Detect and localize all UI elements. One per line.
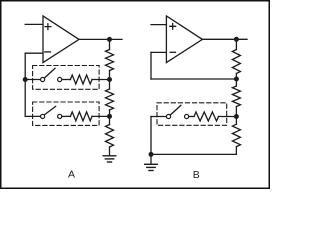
wire feedback rail A: [24, 53, 26, 116]
wire switch rail B: [150, 117, 152, 155]
wire R9 to chain node: [219, 116, 237, 118]
dashed box row1: [33, 66, 100, 90]
wire U2 inverting input: [151, 51, 166, 53]
node rail row1: [23, 77, 28, 82]
ground A: [103, 156, 116, 162]
wire U2 noninverting input: [151, 24, 166, 26]
wire R4 to chain node: [92, 79, 110, 81]
node chain row1: [107, 77, 112, 82]
node ground B: [149, 152, 154, 157]
wire U2 feedback across: [151, 78, 236, 80]
wire node to R3: [109, 116, 111, 124]
wire R6 to node: [235, 74, 237, 80]
wire U2 feedback down: [150, 52, 152, 79]
node chain row B: [234, 114, 239, 119]
switch S2: [41, 106, 62, 118]
op-amp U1: [43, 16, 79, 63]
wire rail to switch S3: [151, 116, 166, 118]
wire S3 to R9: [189, 116, 194, 118]
resistor R6: [232, 50, 240, 74]
switch S1: [41, 68, 62, 81]
wire R1 to node: [109, 71, 111, 80]
wire R7 to node: [235, 107, 237, 117]
wire R2 to node: [109, 110, 111, 116]
wire U2 output: [202, 38, 247, 40]
border frame: [1, 1, 270, 189]
wire R3 to ground: [109, 147, 111, 155]
wire chain top segment: [109, 39, 111, 49]
wire node to R2: [109, 80, 111, 90]
resistor R2: [106, 89, 114, 110]
dashed box row2: [33, 102, 100, 125]
node output A: [107, 37, 112, 42]
wire rail to switch S2: [25, 115, 40, 117]
wire S1 to R4: [62, 79, 70, 81]
node chain feedback B: [234, 77, 239, 82]
wire node to ground: [150, 154, 152, 164]
resistor R5: [70, 112, 92, 121]
resistor R4: [70, 75, 92, 84]
wire S2 to R5: [62, 115, 71, 117]
wire U1 inverting input: [25, 52, 43, 54]
resistor R7: [232, 86, 240, 107]
node chain row2: [107, 114, 112, 119]
resistor R1: [106, 50, 114, 71]
wire rail to switch S1: [25, 79, 40, 81]
wire node to R8: [235, 117, 237, 125]
wire U1 noninverting input: [25, 23, 43, 25]
resistor R8: [232, 124, 240, 146]
op-amp U2: [166, 16, 202, 63]
svg-text:A: A: [68, 169, 75, 181]
wire U1 output: [79, 38, 122, 40]
resistor R3: [106, 125, 114, 148]
wire R5 to chain node: [92, 115, 110, 117]
resistor R9: [194, 112, 219, 121]
dashed box row B: [157, 103, 227, 126]
ground B: [145, 164, 158, 170]
switch S3: [166, 105, 188, 118]
node output B: [234, 37, 239, 42]
wire chain top segment B: [235, 39, 237, 49]
svg-text:B: B: [193, 169, 200, 181]
wire node to R7: [235, 79, 237, 86]
wire chain bottom corner B: [151, 147, 236, 155]
